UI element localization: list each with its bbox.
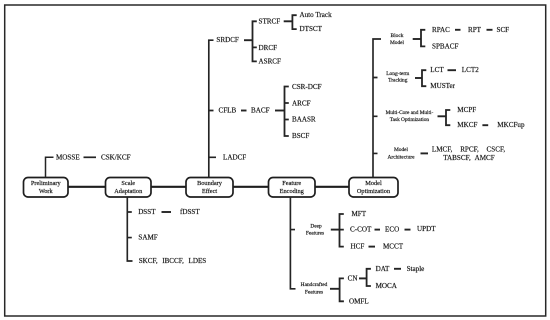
svg-text:RPAC: RPAC	[432, 26, 450, 34]
svg-text:Adaptation: Adaptation	[114, 188, 143, 195]
svg-text:SAMF: SAMF	[138, 234, 157, 242]
svg-text:Scale: Scale	[121, 180, 135, 187]
bracket SRDCF children	[253, 21, 257, 61]
bracket CN children	[367, 269, 371, 286]
svg-text:MFT: MFT	[352, 210, 367, 218]
svg-text:Optimization: Optimization	[357, 188, 391, 195]
svg-text:LCT: LCT	[430, 66, 444, 74]
svg-text:UPDT: UPDT	[417, 225, 436, 233]
wire dash MKCF to MKCFup	[482, 124, 488, 126]
svg-text:SKCF, IBCCF, LDES: SKCF, IBCCF, LDES	[139, 257, 207, 265]
wire dash Handcrafted to bracket	[330, 288, 340, 290]
wire dash DAT to Staple	[394, 268, 401, 270]
node Boundary Effect	[186, 178, 233, 198]
wire backbone segment 3	[232, 186, 269, 188]
svg-text:LCT2: LCT2	[462, 66, 479, 74]
svg-text:Long-term: Long-term	[386, 71, 410, 77]
svg-text:LADCF: LADCF	[223, 153, 246, 161]
svg-text:CSK/KCF: CSK/KCF	[101, 153, 131, 161]
wire dash Long-term to bracket	[415, 77, 422, 79]
wire dash LCT to LCT2	[448, 69, 457, 71]
svg-text:DAT: DAT	[376, 265, 390, 273]
wire column below Feature Encoding	[290, 197, 295, 289]
svg-text:DSST: DSST	[138, 208, 156, 216]
wire backbone segment 1	[67, 186, 106, 188]
wire dash STRCF to bracket	[284, 20, 293, 22]
svg-text:STRCF: STRCF	[259, 17, 281, 25]
svg-text:MOSSE: MOSSE	[56, 153, 80, 161]
wire backbone segment 2	[150, 186, 187, 188]
svg-text:Model: Model	[365, 180, 382, 187]
svg-text:SCF: SCF	[497, 26, 510, 34]
bracket Handcrafted children	[340, 278, 344, 301]
wire dash Multi-Core to bracket	[438, 115, 447, 117]
svg-text:BAASR: BAASR	[292, 116, 316, 124]
svg-text:ASRCF: ASRCF	[259, 57, 282, 65]
svg-text:Model: Model	[390, 40, 405, 46]
svg-text:ECO: ECO	[385, 226, 399, 234]
node Preliminary Work	[24, 178, 69, 198]
svg-text:Features: Features	[305, 289, 323, 295]
wire dash HCF to MCCT	[369, 246, 376, 248]
svg-text:Staple: Staple	[407, 265, 425, 273]
svg-text:DTSCT: DTSCT	[300, 25, 323, 33]
wire dash ECO to UPDT	[405, 229, 411, 231]
wire dash CFLB to BACF	[241, 110, 247, 112]
wire dash C-COT to ECO	[375, 229, 381, 231]
svg-text:Auto Track: Auto Track	[300, 11, 333, 19]
wire dash Deep Features to bracket	[331, 229, 340, 231]
svg-text:HCF: HCF	[351, 243, 365, 251]
svg-text:MUSTer: MUSTer	[430, 82, 455, 90]
wire dash CN to bracket	[359, 277, 367, 279]
svg-text:Multi-Core and Multi-: Multi-Core and Multi-	[386, 110, 434, 116]
svg-text:Architecture: Architecture	[388, 154, 416, 160]
svg-text:MKCFup: MKCFup	[497, 121, 525, 129]
wire dash RPAC to RPT	[455, 29, 461, 31]
svg-text:MOCA: MOCA	[376, 282, 398, 290]
svg-text:C-COT: C-COT	[350, 226, 372, 234]
bracket Deep Features children	[340, 214, 344, 247]
svg-text:Features: Features	[306, 231, 324, 237]
svg-text:LMCF, RPCF, CSCF,: LMCF, RPCF, CSCF,	[432, 145, 505, 153]
svg-text:Effect: Effect	[202, 188, 218, 195]
svg-text:MCCT: MCCT	[383, 243, 404, 251]
svg-text:Tracking: Tracking	[388, 77, 408, 83]
svg-text:BSCF: BSCF	[292, 132, 309, 140]
wire dash Block Model to bracket	[413, 38, 421, 40]
wire dash SRDCF to bracket	[244, 39, 253, 41]
svg-text:TABSCF, AMCF: TABSCF, AMCF	[443, 154, 494, 162]
svg-text:Model: Model	[394, 147, 409, 153]
node Feature Encoding	[269, 178, 316, 198]
svg-text:Handcrafted: Handcrafted	[301, 281, 328, 288]
svg-text:CN: CN	[348, 274, 358, 282]
bracket Block Model children	[421, 30, 425, 47]
svg-text:Work: Work	[39, 188, 54, 195]
bracket STRCF children	[292, 15, 296, 29]
wire dash BACF to bracket	[275, 110, 285, 112]
wire dash RPT to SCF	[487, 29, 493, 31]
svg-text:ARCF: ARCF	[292, 99, 311, 107]
wire dash Model Architecture to list	[421, 152, 429, 154]
svg-text:SRDCF: SRDCF	[216, 36, 239, 44]
wire stub above Preliminary Work	[46, 157, 54, 177]
wire column below Scale Adaptation	[127, 197, 132, 261]
svg-text:CSR-DCF: CSR-DCF	[292, 83, 322, 91]
svg-text:BACF: BACF	[251, 107, 270, 115]
svg-text:Preliminary: Preliminary	[31, 180, 62, 187]
svg-text:CFLB: CFLB	[219, 107, 237, 115]
wire backbone segment 4	[314, 186, 350, 188]
svg-text:Encoding: Encoding	[280, 188, 305, 195]
node Model Optimization	[349, 178, 398, 198]
svg-text:MCPF: MCPF	[457, 106, 476, 114]
bracket BACF children	[285, 87, 289, 137]
svg-text:Boundary: Boundary	[197, 180, 223, 187]
svg-text:DRCF: DRCF	[259, 44, 278, 52]
wire dash DSST to fDSST	[162, 211, 172, 213]
svg-text:RPT: RPT	[468, 26, 482, 34]
svg-text:Task Optimization: Task Optimization	[390, 117, 430, 123]
wire column above Boundary Effect	[209, 40, 216, 177]
wire column above Model Optimization	[373, 39, 381, 178]
svg-text:Block: Block	[391, 33, 404, 39]
bracket Long-term children	[422, 70, 426, 86]
svg-text:OMFL: OMFL	[349, 297, 369, 305]
node Scale Adaptation	[106, 178, 152, 198]
svg-text:MKCF: MKCF	[457, 121, 477, 129]
svg-text:Deep: Deep	[310, 224, 322, 230]
svg-text:SPBACF: SPBACF	[432, 42, 458, 50]
bracket Multi-Core children	[446, 110, 450, 125]
wire dash MOSSE to CSK/KCF	[84, 156, 97, 158]
svg-text:Feature: Feature	[282, 180, 301, 187]
svg-text:fDSST: fDSST	[180, 208, 200, 216]
